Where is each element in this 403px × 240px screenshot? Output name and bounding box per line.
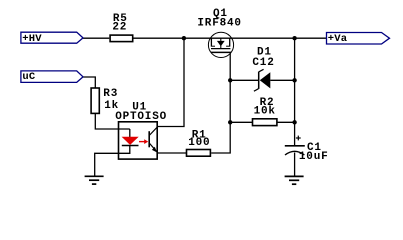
svg-text:OPTOISO: OPTOISO: [115, 111, 167, 123]
svg-text:+HV: +HV: [22, 33, 42, 45]
svg-text:IRF840: IRF840: [197, 18, 241, 30]
svg-text:C12: C12: [252, 57, 274, 69]
svg-text:10k: 10k: [254, 106, 276, 118]
svg-text:uC: uC: [22, 71, 36, 83]
svg-text:22: 22: [112, 21, 127, 33]
svg-text:100: 100: [188, 137, 210, 149]
svg-text:+Va: +Va: [328, 33, 348, 45]
svg-text:R3: R3: [103, 88, 118, 100]
svg-text:10uF: 10uF: [299, 151, 329, 163]
